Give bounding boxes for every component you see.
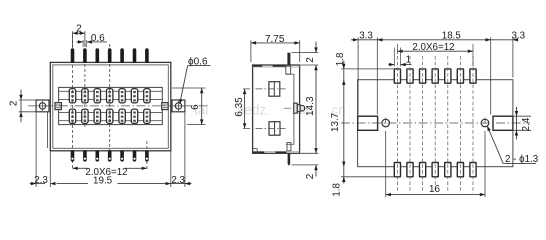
svg-text:19.5: 19.5	[93, 175, 113, 186]
svg-text:1.8: 1.8	[332, 183, 343, 197]
svg-text:cn.: cn.	[299, 102, 317, 117]
svg-text:2.3: 2.3	[34, 175, 48, 186]
svg-text:18.5: 18.5	[442, 31, 462, 42]
svg-text:2.3: 2.3	[171, 175, 185, 186]
svg-text:2: 2	[9, 100, 20, 106]
svg-text:2.0X6=12: 2.0X6=12	[412, 42, 454, 53]
svg-text:2 - ϕ1.3: 2 - ϕ1.3	[505, 154, 539, 165]
svg-text:3.3: 3.3	[359, 31, 373, 42]
svg-text:tai: tai	[194, 102, 208, 117]
svg-text:7.75: 7.75	[265, 34, 285, 45]
svg-text:0.6: 0.6	[91, 33, 105, 44]
svg-text:2: 2	[76, 24, 82, 35]
svg-text:2: 2	[305, 57, 316, 63]
svg-text:1: 1	[406, 55, 411, 66]
svg-text:aedz.: aedz.	[237, 102, 270, 117]
svg-text:cn: cn	[332, 102, 346, 117]
svg-text:3.3: 3.3	[511, 31, 525, 42]
svg-text:16: 16	[429, 184, 440, 195]
svg-text:1.8: 1.8	[335, 52, 346, 66]
svg-text:2.4: 2.4	[521, 117, 532, 131]
svg-text:2: 2	[305, 173, 316, 179]
